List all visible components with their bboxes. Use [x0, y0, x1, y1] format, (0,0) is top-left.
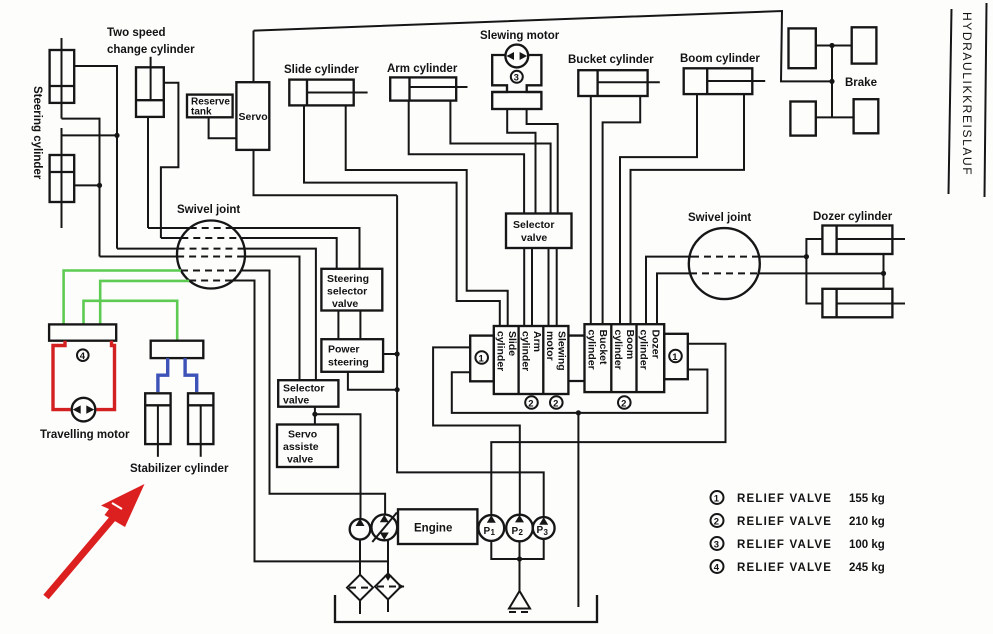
boom cylinder rod	[707, 80, 765, 82]
selector valve box (left)	[278, 380, 338, 407]
relief ② below arm section	[525, 396, 538, 409]
svg-text:P: P	[537, 525, 544, 536]
svg-text:245 kg: 245 kg	[849, 562, 885, 574]
svg-text:motor: motor	[544, 331, 556, 361]
svg-text:Arm cylinder: Arm cylinder	[387, 63, 458, 75]
steering cylinder 1 piston line	[50, 85, 75, 87]
slewing motor arrows	[507, 52, 515, 60]
bucket cylinder rod	[598, 81, 660, 83]
dozer cylinder lower body	[822, 289, 892, 318]
green wire g3 motor header to stabilizer header	[84, 301, 178, 341]
svg-text:Boom cylinder: Boom cylinder	[680, 53, 760, 65]
wire P2 suction down	[519, 541, 521, 591]
svg-text:1: 1	[672, 352, 678, 363]
wire top border line	[254, 11, 833, 81]
svg-text:2: 2	[528, 399, 533, 410]
stabilizer cylinder 2 piston	[188, 404, 213, 406]
engine box	[398, 509, 477, 544]
relief valve box left ①	[470, 336, 494, 382]
svg-text:Slewing: Slewing	[556, 331, 568, 371]
wire P1 pressure line to right relief box	[491, 344, 725, 515]
svg-text:change cylinder: change cylinder	[107, 44, 195, 56]
svg-text:210 kg: 210 kg	[849, 516, 885, 528]
wire arm left pin to selector valve	[409, 101, 524, 214]
brake box bottom-right	[854, 99, 879, 133]
relief ③ symbol	[511, 71, 523, 83]
SECTION: reserve tank / servo	[187, 31, 397, 196]
svg-text:Engine: Engine	[414, 523, 452, 535]
valve block left (slide/arm/slewing)	[494, 326, 569, 394]
wire brake vertical	[831, 46, 833, 118]
slewing motor bracket	[492, 55, 507, 92]
dozer cylinder upper rod	[837, 238, 905, 240]
boom cylinder piston	[706, 68, 708, 94]
swivel joint circle (left)	[177, 221, 245, 289]
wire selector valve out pin 3	[548, 248, 550, 326]
wire cyl1 right side	[74, 66, 117, 249]
wire bucket left pin to block	[590, 96, 592, 324]
svg-text:1: 1	[491, 528, 496, 537]
steering cylinder 2 body	[50, 155, 75, 202]
steering selector valve box	[321, 269, 382, 311]
wire servo top to top border	[253, 31, 255, 83]
red circuit right	[97, 341, 115, 410]
svg-text:Two speed: Two speed	[107, 27, 166, 39]
blue wire to stabilizer cylinder 1	[158, 358, 168, 392]
svg-text:2: 2	[621, 399, 626, 410]
slide cylinder rod	[307, 92, 368, 94]
wire filter1 stub	[359, 601, 361, 615]
svg-text:Dozer cylinder: Dozer cylinder	[813, 211, 893, 223]
svg-text:Servo: Servo	[239, 111, 268, 123]
wire return B: left relief box to right relief box (tank line)	[452, 370, 708, 413]
wire cyl1 bottom to node	[62, 119, 100, 257]
svg-text:cylinder: cylinder	[519, 331, 531, 371]
wire selector valve out pin 2	[531, 248, 533, 326]
blue wire to stabilizer cylinder 2	[185, 358, 197, 392]
wire H2 swivel line to steering selector valve	[161, 237, 181, 239]
svg-text:1: 1	[479, 354, 485, 365]
svg-text:valve: valve	[332, 298, 358, 310]
suction strainer triangle	[509, 591, 530, 609]
svg-text:Slide cylinder: Slide cylinder	[284, 64, 359, 76]
svg-text:2: 2	[553, 399, 558, 410]
svg-text:4: 4	[714, 563, 720, 574]
svg-text:cylinder: cylinder	[612, 330, 624, 370]
svg-text:RELIEF VALVE: RELIEF VALVE	[737, 539, 832, 551]
brake box top-right	[852, 27, 877, 63]
divider bucket/boom	[610, 324, 612, 392]
svg-text:Travelling motor: Travelling motor	[40, 429, 130, 441]
wire two-speed bottom to swivel line H1	[147, 117, 149, 228]
wire return A: left relief box to pump2 top	[433, 347, 520, 514]
svg-text:Bucket: Bucket	[597, 330, 609, 366]
steering cylinder 2 piston line	[50, 171, 75, 173]
node pilot junction 1	[395, 351, 400, 356]
wire selector valve junction to pump 1	[315, 414, 361, 519]
relief valve box right ①	[664, 334, 688, 379]
node pilot junction 2	[395, 387, 400, 392]
wire slide right pin to block	[346, 105, 508, 326]
relief ② below slewing section	[550, 396, 563, 409]
arm cylinder piston	[408, 77, 410, 100]
legend relief valve 1	[711, 491, 724, 504]
svg-text:1: 1	[714, 494, 720, 505]
wire slewing lead 1 to selector valve	[507, 109, 535, 214]
svg-text:Stabilizer cylinder: Stabilizer cylinder	[130, 463, 229, 475]
valve block right (bucket/boom/dozer)	[585, 324, 665, 392]
svg-text:Brake: Brake	[845, 77, 877, 89]
wire H5 pilot line to pump 2 top	[181, 270, 241, 272]
svg-text:Dozer: Dozer	[649, 330, 661, 359]
svg-text:P: P	[512, 526, 519, 537]
node selector valve out junction	[312, 412, 317, 417]
svg-text:2: 2	[519, 528, 524, 537]
svg-text:4: 4	[80, 351, 86, 362]
two speed cylinder piston line	[136, 99, 164, 101]
svg-text:cylinder: cylinder	[585, 330, 597, 370]
rule right of HYDRAULIKKREISLAUF	[985, 3, 987, 197]
stabilizer cylinder 1 body	[145, 393, 170, 444]
rule left of HYDRAULIKKREISLAUF	[949, 9, 952, 194]
selector valve box (middle)	[506, 214, 572, 249]
legend relief valve 4	[711, 560, 724, 573]
wire steering selector to power steering pin2	[359, 311, 361, 340]
boom cylinder body	[684, 68, 753, 94]
node B junction	[97, 183, 102, 188]
svg-text:Slewing motor: Slewing motor	[480, 30, 560, 42]
wire slewing lead 2 to selector valve	[527, 109, 558, 214]
slide cylinder body	[289, 80, 353, 106]
wire dozer right manifold	[883, 254, 885, 289]
brake box bottom-left	[790, 102, 815, 136]
stabilizer cylinder 2 rod	[200, 405, 202, 457]
wire filter2 stub	[387, 600, 389, 613]
svg-text:valve: valve	[283, 395, 309, 407]
wire H3 swivel line to selector valve	[117, 248, 178, 250]
slide cylinder piston	[306, 80, 308, 106]
wire selector valve to servo assiste valve	[314, 407, 316, 425]
svg-text:Swivel joint: Swivel joint	[688, 212, 751, 224]
swivel joint circle (right)	[689, 228, 760, 299]
wire two-speed right side to swivel line H2	[161, 83, 179, 238]
SECTION: mid selector valve	[506, 214, 572, 327]
svg-text:valve: valve	[521, 232, 547, 244]
red circuit left	[53, 341, 71, 410]
legend relief valve 3	[711, 537, 724, 550]
legend relief valve 2	[711, 514, 724, 527]
svg-text:assiste: assiste	[283, 441, 319, 453]
stabilizer cylinder 1 rod	[157, 405, 159, 457]
SECTION: control valve block	[433, 324, 725, 607]
svg-text:P: P	[484, 526, 491, 537]
wire return dip to tank	[577, 413, 579, 607]
wire selector valve out pin 1	[523, 248, 525, 326]
dozer cylinder upper piston	[835, 226, 837, 255]
wire cyl2 top to node A	[62, 134, 118, 136]
svg-text:Power: Power	[328, 344, 360, 356]
svg-text:Steering cylinder: Steering cylinder	[31, 86, 43, 180]
svg-text:cylinder: cylinder	[495, 331, 507, 371]
wire power steering right to pilot vertical	[383, 353, 397, 355]
wire between top brake boxes	[816, 45, 852, 47]
servo assiste valve box	[277, 425, 338, 468]
SECTION: legend	[711, 491, 885, 574]
svg-text:3: 3	[514, 73, 519, 84]
SECTION: left swivel	[64, 204, 388, 561]
SECTION: engine pumps tank	[335, 509, 597, 622]
tank outline	[335, 595, 597, 622]
svg-text:HYDRAULIKKREISLAUF: HYDRAULIKKREISLAUF	[960, 12, 974, 176]
stabilizer cylinder 2 body	[188, 393, 213, 444]
filter diamond 2	[375, 574, 401, 600]
svg-text:155 kg: 155 kg	[849, 493, 885, 505]
divider boom/dozer	[635, 324, 637, 392]
SECTION: two speed cylinder	[107, 27, 195, 238]
wire selector valve out pin 4	[556, 248, 558, 326]
dozer cylinder upper body	[822, 226, 892, 255]
arm cylinder rod	[410, 86, 468, 88]
SECTION: top border + brake	[254, 3, 987, 197]
SECTION: travelling motor / stabilizer	[40, 324, 229, 597]
power steering box	[321, 339, 383, 372]
svg-text:steering: steering	[328, 357, 369, 369]
wire power steering bottom to pilot vertical	[348, 372, 397, 390]
wire slide left pin to block	[304, 105, 500, 326]
node brake feed junction	[829, 79, 834, 84]
steering cylinder 2 rod	[61, 128, 63, 228]
wire steering selector to power steering pin1	[337, 311, 339, 340]
wire between bottom brake boxes	[816, 116, 854, 118]
red arrow pointing to stabilizer	[46, 511, 119, 597]
SECTION: top cylinders	[284, 30, 765, 326]
wire H6 line to pump 2 bottom	[189, 280, 233, 282]
node dozer lower junction	[881, 271, 886, 276]
node dozer upper junction	[804, 254, 809, 259]
wire H1 swivel line to steering selector valve	[148, 227, 190, 229]
wire dozer line lower through swivel	[657, 273, 690, 324]
svg-text:tank: tank	[191, 107, 212, 118]
node A junction	[114, 133, 119, 138]
SECTION: valves column	[277, 195, 544, 519]
wire reserve tank to servo	[209, 117, 237, 138]
wire pilot vertical to P3 pump feed	[397, 195, 544, 517]
stabilizer header box	[151, 341, 204, 358]
filter diamond 1	[347, 575, 373, 601]
pump P1	[478, 515, 504, 541]
wire pump2 down to filter 2	[387, 540, 389, 573]
svg-text:Boom: Boom	[624, 330, 636, 360]
svg-text:Servo: Servo	[288, 429, 317, 441]
relief ② below boom section	[618, 396, 631, 409]
SECTION: right swivel + dozer	[646, 211, 905, 324]
stabilizer cylinder 1 piston	[145, 404, 170, 406]
pump 2 (variable)	[371, 515, 397, 541]
node tank line junction	[576, 410, 581, 415]
svg-text:Swivel joint: Swivel joint	[177, 204, 240, 216]
svg-text:3: 3	[714, 540, 719, 551]
svg-text:RELIEF VALVE: RELIEF VALVE	[737, 562, 832, 574]
pump 1 (gear)	[350, 519, 371, 540]
svg-text:Bucket cylinder: Bucket cylinder	[568, 54, 654, 66]
svg-text:2: 2	[714, 517, 719, 528]
brake box top-left	[789, 28, 816, 68]
steering cylinder 1 rod	[61, 38, 63, 119]
svg-text:Arm: Arm	[531, 331, 543, 352]
svg-text:RELIEF VALVE: RELIEF VALVE	[737, 516, 832, 528]
svg-text:Slide: Slide	[506, 331, 518, 356]
divider arm/slewing	[542, 326, 544, 394]
pump P2	[506, 515, 533, 542]
svg-text:Selector: Selector	[513, 219, 554, 231]
block middle connector	[568, 334, 584, 336]
node top brake junction	[829, 43, 834, 48]
svg-text:valve: valve	[287, 454, 313, 466]
wire bucket right pin to block	[603, 96, 641, 324]
SECTION: top-left steering cylinders	[31, 38, 120, 257]
svg-text:Steering: Steering	[327, 273, 369, 285]
wire pump1 down to filter	[359, 540, 361, 575]
two speed cylinder rod	[150, 57, 152, 100]
svg-text:Selector: Selector	[283, 383, 324, 395]
svg-text:cylinder: cylinder	[638, 330, 650, 370]
svg-text:RELIEF VALVE: RELIEF VALVE	[737, 493, 832, 505]
green wire g2 swivel to travelling motor	[100, 281, 189, 325]
wire boom right pin to block	[631, 94, 745, 324]
node P2 suction junction	[517, 556, 522, 561]
arm cylinder body	[390, 77, 456, 100]
dozer cylinder lower rod	[837, 303, 905, 305]
pump 2 variable arrow	[372, 513, 397, 543]
divider slide/arm	[517, 326, 519, 394]
wire arm right pin to selector valve	[450, 101, 550, 214]
reserve tank box	[187, 95, 233, 118]
svg-text:selector: selector	[327, 286, 367, 298]
wire P1 P3 suction manifold	[491, 539, 543, 559]
slewing valve block	[492, 92, 541, 109]
wire boom left pin to block	[620, 94, 697, 324]
wire dozer left manifold	[806, 239, 822, 304]
wire cyl2 right to node B	[74, 184, 99, 186]
pump P3	[533, 517, 555, 539]
bucket cylinder body	[578, 70, 647, 96]
green wire g1 swivel to travelling motor	[64, 271, 181, 325]
svg-text:3: 3	[544, 528, 549, 537]
wire H4 swivel line to selector valve	[100, 256, 178, 258]
servo box U1	[236, 82, 269, 150]
travelling motor header box	[49, 324, 116, 340]
bucket cylinder piston	[596, 70, 598, 96]
dozer cylinder lower piston	[835, 289, 837, 318]
slewing motor circle M1	[505, 45, 528, 68]
travelling motor circle M2	[72, 398, 96, 422]
wire servo bottom pilot line	[254, 150, 398, 195]
steering cylinder 1 body	[50, 50, 75, 103]
svg-text:100 kg: 100 kg	[849, 539, 885, 551]
two speed change cylinder body	[136, 67, 164, 117]
wire dozer line upper through swivel	[646, 257, 692, 325]
relief ④ symbol	[77, 349, 89, 361]
